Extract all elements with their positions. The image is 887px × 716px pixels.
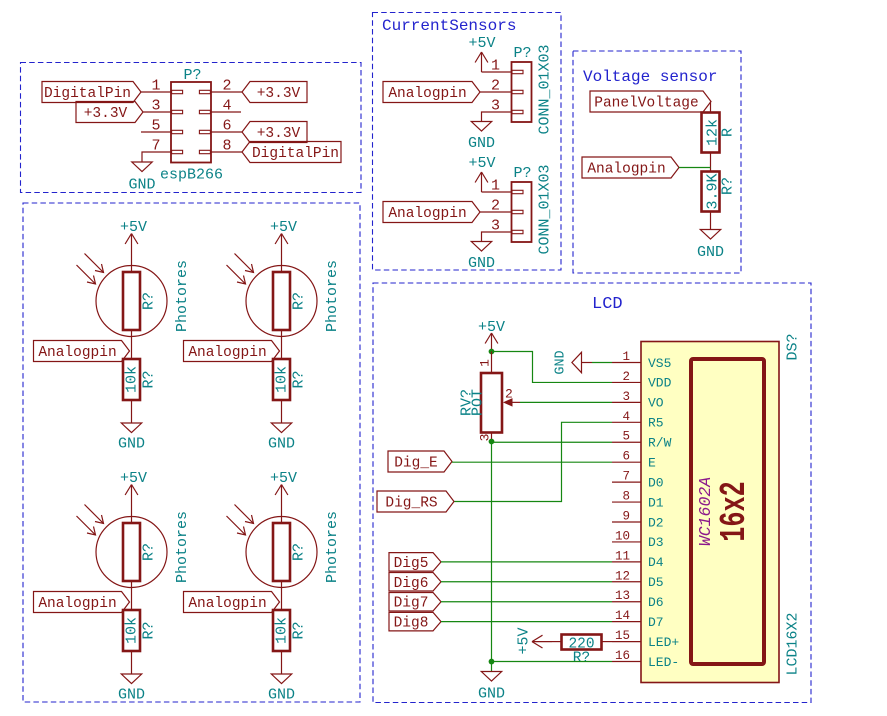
junction dot (pot pin3 / RW / gnd net) bbox=[489, 439, 495, 445]
label DigitalPin (pin8) bbox=[242, 142, 341, 163]
svg-text:5: 5 bbox=[622, 430, 630, 444]
svg-text:GND: GND bbox=[268, 687, 295, 704]
svg-text:D5: D5 bbox=[648, 575, 664, 590]
svg-text:R?: R? bbox=[141, 543, 158, 561]
wire 10k to ground bbox=[281, 400, 283, 423]
wire photoresistor to 10k bbox=[281, 581, 283, 610]
svg-text:1: 1 bbox=[491, 178, 500, 195]
svg-text:LED-: LED- bbox=[648, 655, 679, 670]
+5V power symbol (LED+, rotated left) bbox=[532, 635, 552, 648]
label Analogpin (photo 3) bbox=[34, 592, 130, 613]
wire 10k to ground bbox=[131, 651, 133, 674]
svg-text:10k: 10k bbox=[124, 617, 141, 644]
svg-text:LED+: LED+ bbox=[648, 635, 679, 650]
dashed sheet box: CurrentSensors bbox=[373, 13, 562, 271]
svg-text:LCD: LCD bbox=[592, 295, 623, 314]
svg-text:P?: P? bbox=[514, 165, 532, 182]
svg-text:GND: GND bbox=[128, 177, 155, 194]
LCD module DS? body bbox=[641, 342, 779, 683]
junction dot (LED- / gnd) bbox=[489, 659, 495, 665]
label +3.3V (pin2) bbox=[242, 82, 307, 103]
ground symbol (LCD bottom) bbox=[491, 662, 493, 672]
svg-text:GND: GND bbox=[554, 350, 569, 374]
svg-text:R?: R? bbox=[291, 292, 308, 310]
svg-text:10: 10 bbox=[615, 529, 630, 543]
wire pin2 bbox=[480, 91, 512, 93]
svg-text:R?: R? bbox=[141, 621, 158, 639]
photoresistor R? (photo 2) bbox=[246, 266, 317, 337]
ground symbol (esp pin7) bbox=[132, 162, 152, 172]
svg-text:2: 2 bbox=[505, 387, 513, 402]
svg-text:+5V: +5V bbox=[270, 219, 297, 236]
svg-text:R?: R? bbox=[141, 292, 158, 310]
dashed sheet box: LCD bbox=[373, 283, 811, 703]
svg-text:GND: GND bbox=[468, 255, 495, 272]
wire pin3 to ground bbox=[482, 232, 512, 242]
connector P? CONN_01X03 body (sensor 1) bbox=[512, 62, 532, 122]
light arrow 1 bbox=[85, 505, 104, 524]
wire pin1 bbox=[141, 91, 171, 93]
svg-text:Dig_RS: Dig_RS bbox=[385, 496, 437, 512]
label Analogpin (sensor 1) bbox=[383, 82, 480, 103]
svg-text:6: 6 bbox=[622, 450, 630, 464]
svg-text:15: 15 bbox=[615, 629, 630, 643]
wire Dig_E to E pin6 bbox=[452, 461, 612, 463]
wire +5V down to junction bbox=[491, 351, 493, 353]
svg-text:P?: P? bbox=[184, 67, 202, 84]
svg-text:E: E bbox=[648, 455, 656, 470]
ground symbol VS5 (rotated) bbox=[572, 352, 582, 372]
wire gnd net vertical bbox=[491, 442, 493, 662]
wire Dig8 to D7 bbox=[441, 621, 612, 623]
svg-text:9: 9 bbox=[622, 509, 630, 523]
dashed sheet box: Voltage sensor bbox=[573, 51, 741, 273]
ground symbol (photo 4) bbox=[271, 674, 291, 684]
svg-text:+5V: +5V bbox=[468, 35, 495, 52]
connector pin contacts bbox=[172, 90, 183, 93]
svg-text:Photores: Photores bbox=[174, 511, 191, 583]
label Dig_RS bbox=[377, 491, 454, 512]
wire +5V to photoresistor bbox=[131, 505, 133, 525]
svg-text:Analogpin: Analogpin bbox=[388, 86, 466, 102]
svg-text:14: 14 bbox=[615, 609, 630, 623]
svg-text:POT: POT bbox=[470, 389, 487, 416]
resistor R 12k bbox=[702, 113, 720, 153]
svg-text:4: 4 bbox=[622, 410, 630, 424]
wire +5V to pin1 bbox=[482, 71, 512, 73]
LCD pin stubs bbox=[612, 362, 641, 364]
wire Dig6 to D5 bbox=[441, 581, 612, 583]
wire R12k to junction bbox=[710, 153, 712, 172]
wire 10k to ground bbox=[281, 651, 283, 674]
wire Dig7 to D6 bbox=[441, 601, 612, 603]
wire pin2 bbox=[480, 211, 512, 213]
wire pin7 to ground bbox=[142, 152, 171, 162]
label Analogpin (photo 1) bbox=[34, 341, 130, 362]
svg-text:7: 7 bbox=[622, 470, 630, 484]
svg-text:1: 1 bbox=[478, 359, 493, 367]
svg-text:Dig6: Dig6 bbox=[394, 576, 429, 592]
svg-text:+5V: +5V bbox=[516, 627, 533, 654]
svg-text:Analogpin: Analogpin bbox=[188, 596, 266, 612]
wire photoresistor to 10k bbox=[131, 330, 133, 359]
wire 220 to LED+ pin15 bbox=[602, 641, 612, 643]
wire pot3 to R/W pin5 bbox=[492, 441, 613, 443]
svg-text:1: 1 bbox=[491, 58, 500, 75]
resistor R? 10k (photo 1) bbox=[123, 359, 140, 400]
svg-text:CONN_01X03: CONN_01X03 bbox=[537, 164, 554, 254]
connector P? CONN_01X03 body (sensor 2) bbox=[512, 182, 532, 242]
ground symbol (sensor 1) bbox=[471, 122, 491, 132]
wire +5V to pin1 bbox=[482, 191, 512, 193]
svg-text:R5: R5 bbox=[648, 416, 664, 431]
svg-text:Analogpin: Analogpin bbox=[587, 162, 665, 178]
svg-text:10k: 10k bbox=[274, 366, 291, 393]
svg-text:16x2: 16x2 bbox=[715, 481, 756, 541]
resistor R? 10k (photo 2) bbox=[273, 359, 290, 400]
svg-text:R?: R? bbox=[573, 651, 590, 667]
svg-text:Dig7: Dig7 bbox=[394, 596, 429, 612]
svg-text:P?: P? bbox=[514, 45, 532, 62]
svg-text:DigitalPin: DigitalPin bbox=[44, 86, 131, 102]
wire PanelVoltage to R 12k bbox=[710, 102, 712, 114]
junction dot (pot pin1 / +5V) bbox=[489, 349, 495, 355]
label Analogpin (voltage divider) bbox=[582, 157, 679, 178]
wire pin2 bbox=[211, 91, 242, 93]
LCD display window bbox=[691, 359, 764, 664]
potentiometer RV? POT body bbox=[491, 352, 493, 374]
wire gnd to VS5 bbox=[592, 362, 612, 364]
wire 10k to ground bbox=[131, 400, 133, 423]
svg-text:+5V: +5V bbox=[270, 470, 297, 487]
svg-text:PanelVoltage: PanelVoltage bbox=[594, 96, 698, 112]
svg-text:2: 2 bbox=[622, 370, 630, 384]
photoresistor R? (photo 3) bbox=[96, 517, 167, 588]
svg-text:GND: GND bbox=[697, 244, 724, 261]
svg-text:espB266: espB266 bbox=[160, 167, 223, 184]
light arrow 1 bbox=[85, 254, 104, 273]
photoresistor R? (photo 4) bbox=[246, 517, 317, 588]
svg-text:+5V: +5V bbox=[120, 219, 147, 236]
svg-text:13: 13 bbox=[615, 589, 630, 603]
svg-text:Dig_E: Dig_E bbox=[394, 456, 438, 472]
ground symbol (photo 1) bbox=[121, 423, 141, 433]
svg-text:DigitalPin: DigitalPin bbox=[252, 146, 339, 162]
svg-text:D1: D1 bbox=[648, 495, 664, 510]
ground symbol (photo 3) bbox=[121, 674, 141, 684]
label Dig7 bbox=[389, 592, 441, 611]
svg-text:LCD16X2: LCD16X2 bbox=[785, 612, 802, 675]
svg-text:GND: GND bbox=[478, 686, 505, 703]
dashed sheet box: ESP module bbox=[21, 63, 362, 193]
svg-text:CONN_01X03: CONN_01X03 bbox=[537, 44, 554, 134]
svg-text:+3.3V: +3.3V bbox=[84, 106, 128, 122]
svg-text:8: 8 bbox=[622, 490, 630, 504]
label Dig6 bbox=[389, 573, 441, 592]
ground symbol (photo 2) bbox=[271, 423, 291, 433]
wire gnd net to LED- pin16 bbox=[492, 661, 613, 663]
wire +5V to photoresistor bbox=[281, 505, 283, 525]
svg-text:3: 3 bbox=[622, 390, 630, 404]
svg-text:WC1602A: WC1602A bbox=[696, 477, 715, 546]
svg-text:1: 1 bbox=[622, 350, 630, 364]
wire pin5 stub bbox=[141, 131, 171, 133]
wire RS pin4 net bbox=[454, 422, 612, 501]
svg-text:R: R bbox=[720, 128, 737, 137]
svg-text:VDD: VDD bbox=[648, 376, 672, 391]
svg-text:10k: 10k bbox=[274, 617, 291, 644]
svg-text:+3.3V: +3.3V bbox=[257, 86, 301, 102]
wire pin3 to ground bbox=[482, 112, 512, 122]
connector P? (espB266) body bbox=[171, 82, 211, 163]
svg-text:11: 11 bbox=[615, 549, 630, 563]
pot wiper arrow pin2 bbox=[503, 398, 520, 407]
svg-text:VS5: VS5 bbox=[648, 356, 671, 371]
svg-text:Photores: Photores bbox=[324, 260, 341, 332]
svg-text:VO: VO bbox=[648, 396, 664, 411]
svg-text:D3: D3 bbox=[648, 535, 664, 550]
ground symbol (voltage divider) bbox=[700, 230, 720, 240]
svg-text:GND: GND bbox=[118, 436, 145, 453]
wire +5V to photoresistor bbox=[281, 254, 283, 274]
label Analogpin (sensor 2) bbox=[383, 202, 480, 223]
svg-text:Voltage sensor: Voltage sensor bbox=[583, 68, 717, 86]
wire pin4 stub bbox=[211, 111, 241, 113]
wire +5V net to VDD pin2 bbox=[492, 352, 613, 383]
svg-text:R?: R? bbox=[291, 543, 308, 561]
light arrow 2 bbox=[227, 265, 246, 284]
wire Dig5 to D4 bbox=[441, 561, 612, 563]
svg-text:Dig5: Dig5 bbox=[394, 556, 429, 572]
svg-text:+3.3V: +3.3V bbox=[257, 126, 301, 142]
wire pin3 bbox=[143, 111, 171, 113]
light arrow 2 bbox=[227, 516, 246, 535]
light arrow 2 bbox=[77, 516, 96, 535]
svg-text:R?: R? bbox=[720, 177, 737, 195]
svg-text:GND: GND bbox=[118, 687, 145, 704]
svg-text:GND: GND bbox=[468, 135, 495, 152]
svg-text:R/W: R/W bbox=[648, 436, 672, 451]
label PanelVoltage bbox=[590, 91, 711, 112]
svg-text:D7: D7 bbox=[648, 615, 664, 630]
ground symbol (sensor 2) bbox=[471, 242, 491, 252]
label +3.3V (pin6) bbox=[242, 122, 307, 143]
wire pin6 bbox=[211, 131, 242, 133]
svg-text:Analogpin: Analogpin bbox=[188, 345, 266, 361]
svg-text:GND: GND bbox=[268, 436, 295, 453]
svg-text:Analogpin: Analogpin bbox=[388, 206, 466, 222]
light arrow 1 bbox=[235, 505, 254, 524]
svg-text:D4: D4 bbox=[648, 555, 664, 570]
label Dig5 bbox=[389, 553, 441, 572]
svg-text:R?: R? bbox=[141, 370, 158, 388]
svg-text:Photores: Photores bbox=[174, 260, 191, 332]
light arrow 1 bbox=[235, 254, 254, 273]
svg-text:16: 16 bbox=[615, 649, 630, 663]
svg-text:12: 12 bbox=[615, 569, 630, 583]
resistor R? 3.9K bbox=[702, 172, 720, 212]
photoresistor R? (photo 1) bbox=[96, 266, 167, 337]
svg-text:DS?: DS? bbox=[785, 333, 802, 360]
dashed sheet box: photoresistors bbox=[23, 203, 360, 702]
wire wiper to VO pin3 bbox=[520, 401, 612, 403]
wire Analogpin to divider node bbox=[679, 167, 711, 169]
svg-text:Photores: Photores bbox=[324, 511, 341, 583]
svg-text:Analogpin: Analogpin bbox=[38, 596, 116, 612]
wire pin8 bbox=[211, 151, 242, 153]
label DigitalPin (pin1) bbox=[42, 82, 141, 103]
svg-text:D0: D0 bbox=[648, 475, 664, 490]
svg-text:D6: D6 bbox=[648, 595, 664, 610]
label Dig8 bbox=[389, 612, 441, 631]
svg-text:10k: 10k bbox=[124, 366, 141, 393]
wire +5V to photoresistor bbox=[131, 254, 133, 274]
svg-text:Dig8: Dig8 bbox=[394, 616, 429, 632]
svg-text:CurrentSensors: CurrentSensors bbox=[382, 17, 516, 35]
label Dig_E bbox=[388, 451, 452, 472]
wire photoresistor to 10k bbox=[131, 581, 133, 610]
label +3.3V (pin3) bbox=[76, 102, 143, 123]
svg-text:D2: D2 bbox=[648, 515, 664, 530]
svg-text:+5V: +5V bbox=[468, 155, 495, 172]
svg-text:Analogpin: Analogpin bbox=[38, 345, 116, 361]
resistor R? 220 bbox=[562, 635, 602, 650]
label Analogpin (photo 4) bbox=[184, 592, 280, 613]
svg-text:R?: R? bbox=[291, 621, 308, 639]
label Analogpin (photo 2) bbox=[184, 341, 280, 362]
resistor R? 10k (photo 3) bbox=[123, 610, 140, 651]
svg-text:+5V: +5V bbox=[120, 470, 147, 487]
resistor R? 10k (photo 4) bbox=[273, 610, 290, 651]
wire photoresistor to 10k bbox=[281, 330, 283, 359]
pot pin3 bbox=[491, 433, 493, 442]
svg-text:R?: R? bbox=[291, 370, 308, 388]
light arrow 2 bbox=[77, 265, 96, 284]
wire R3.9K to ground bbox=[710, 212, 712, 230]
